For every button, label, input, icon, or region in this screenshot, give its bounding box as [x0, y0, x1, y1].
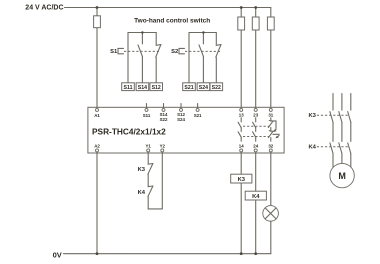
node dot K4 on 0V rail — [254, 252, 257, 255]
S2 NC contact tick — [216, 44, 221, 47]
svg-text:Two-hand control switch: Two-hand control switch — [134, 18, 210, 25]
S2 pushbutton actuator — [179, 48, 185, 53]
svg-text:S1: S1 — [110, 49, 118, 55]
svg-text:S21: S21 — [184, 85, 193, 91]
svg-text:K3: K3 — [238, 177, 246, 183]
terminal box S12 — [150, 83, 163, 91]
wire between feedback contacts — [147, 174, 149, 186]
24V supply rail — [65, 7, 271, 9]
wire feedback bottom — [147, 197, 149, 209]
S1 pushbutton actuator — [118, 48, 124, 53]
K4 main contact L3 — [348, 143, 351, 154]
K3 contactor dashed link — [317, 114, 349, 116]
S2 NO contact lever — [199, 45, 203, 57]
svg-text:13: 13 — [239, 113, 244, 118]
node dot A1 on 24V rail — [96, 6, 99, 9]
wire 13 column — [240, 8, 242, 109]
wire A1 column — [96, 8, 98, 109]
node dot 23 on 24V rail — [254, 6, 257, 9]
terminal box S21 — [183, 83, 196, 91]
fuse F3 — [252, 17, 259, 30]
svg-text:31: 31 — [268, 113, 273, 118]
svg-text:M: M — [338, 171, 346, 181]
terminal box S14 — [136, 83, 149, 91]
K3 feedback NC contact — [148, 163, 153, 166]
wire S14 column — [141, 56, 143, 82]
terminal 14 — [240, 149, 243, 152]
phase L1 wire — [332, 94, 334, 111]
fuse F1 — [94, 16, 101, 28]
0V rail — [64, 253, 271, 255]
terminal 24 — [254, 149, 257, 152]
svg-text:24: 24 — [253, 143, 258, 148]
terminal box S22 — [210, 83, 223, 91]
fuse F4 — [267, 17, 274, 30]
svg-text:K4: K4 — [308, 144, 316, 150]
relay coil K3 — [231, 174, 252, 183]
svg-text:32: 32 — [268, 143, 273, 148]
phase L2 wire — [341, 94, 343, 111]
svg-text:K4: K4 — [252, 194, 260, 200]
wire lamp to 0V — [270, 221, 272, 254]
wire S24 column — [202, 56, 204, 82]
svg-text:23: 23 — [253, 113, 258, 118]
svg-text:Y1: Y1 — [146, 144, 152, 149]
svg-text:A1: A1 — [94, 113, 100, 118]
svg-text:S11: S11 — [124, 85, 133, 91]
terminal 23 — [254, 108, 257, 111]
phase L3 wire — [350, 94, 352, 111]
K4 contactor dashed link — [317, 146, 349, 148]
S2 NC contact lead — [215, 33, 217, 45]
terminal box S11 — [122, 83, 135, 91]
terminal Y1 — [147, 149, 150, 152]
svg-text:14: 14 — [239, 143, 244, 148]
terminal Y2 — [161, 149, 164, 152]
svg-text:S22: S22 — [212, 85, 221, 91]
K4 main contact L2 — [339, 143, 342, 154]
terminal 13 — [240, 108, 243, 111]
node dot S1 bar — [141, 31, 143, 33]
terminal A2 — [96, 149, 99, 152]
wire S1 center stub — [141, 33, 143, 44]
wire 32 to lamp — [270, 152, 272, 206]
svg-text:S11: S11 — [143, 113, 151, 118]
svg-text:S24: S24 — [199, 85, 208, 91]
svg-text:S24: S24 — [177, 117, 185, 122]
relay contact 23-24 — [255, 118, 257, 122]
S1 NO contact lever — [138, 45, 142, 57]
forced-guidance hook row2 — [273, 134, 279, 137]
K3 main contact L2 — [339, 112, 342, 123]
wire S12 column — [155, 57, 157, 83]
wire Y2 up — [161, 152, 163, 209]
svg-text:S12: S12 — [152, 85, 161, 91]
terminal 32 — [269, 149, 272, 152]
forced-guidance hook row1 — [271, 121, 276, 131]
wire 23 column — [255, 8, 257, 109]
relay mech link dashes row1 — [243, 125, 269, 127]
terminal 31 — [269, 108, 272, 111]
wire 24 to K4 coil — [255, 152, 257, 191]
S2 mechanical link dashed — [185, 50, 221, 52]
node dot A2 on 0V rail — [96, 252, 99, 255]
S2 NC contact lever — [216, 45, 221, 58]
svg-text:24 V AC/DC: 24 V AC/DC — [25, 4, 63, 11]
node dot S2 bar — [202, 31, 204, 33]
svg-text:Y2: Y2 — [160, 144, 166, 149]
terminal A1 — [96, 108, 99, 111]
node dot 13 on 24V rail — [240, 6, 243, 9]
svg-text:PSR-THC4/2x1/1x2: PSR-THC4/2x1/1x2 — [92, 127, 166, 137]
svg-text:S14: S14 — [138, 85, 147, 91]
svg-text:S2: S2 — [171, 49, 178, 55]
node dot K3 on 0V rail — [240, 252, 243, 255]
relay contact 13-14 — [240, 118, 242, 122]
svg-text:S22: S22 — [160, 117, 168, 122]
wire S22 column — [215, 57, 217, 83]
svg-text:S21: S21 — [194, 113, 202, 118]
svg-text:K3: K3 — [308, 113, 316, 119]
switch S2 top bar — [189, 32, 216, 34]
wire K4 to 0V — [255, 200, 257, 254]
wire S21 column — [188, 33, 190, 83]
indicator lamp H1 — [263, 206, 279, 222]
wire A2 to 0V — [96, 152, 98, 254]
relay coil K4 — [245, 191, 266, 200]
wire 31 column — [270, 8, 272, 109]
wire S2 center stub — [202, 33, 204, 44]
S1 mechanical link dashed — [124, 50, 160, 52]
K4 feedback NC contact — [148, 185, 153, 188]
svg-text:A2: A2 — [94, 144, 100, 149]
relay contact 31-32 NC — [270, 118, 272, 121]
relay box U1 PSR-THC4 outline — [88, 107, 284, 153]
wire Y1 down — [147, 152, 149, 164]
K4 main contact L1 — [330, 143, 333, 154]
terminal S11 relay — [146, 104, 148, 109]
relay mech link dashes row2 — [243, 136, 269, 138]
terminal S12/S24 relay — [180, 104, 182, 109]
K3 main contact L3 — [348, 112, 351, 123]
terminal S14/S22 relay — [163, 104, 165, 109]
terminal S21 relay — [197, 104, 199, 109]
S1 NC contact lead — [155, 33, 157, 45]
S1 NC contact lever — [156, 45, 161, 58]
fuse F2 — [238, 17, 245, 30]
svg-text:K4: K4 — [138, 190, 146, 196]
switch S1 top bar — [128, 32, 156, 34]
wire K3 to 0V — [240, 183, 242, 254]
svg-text:0V: 0V — [53, 251, 62, 260]
svg-text:K3: K3 — [138, 167, 146, 173]
wire S11 column — [127, 33, 129, 83]
wire 14 to K3 coil — [240, 152, 242, 174]
S1 NC contact tick — [156, 44, 161, 47]
terminal box S24 — [197, 83, 210, 91]
motor M — [330, 163, 354, 187]
K3 main contact L1 — [330, 112, 333, 123]
